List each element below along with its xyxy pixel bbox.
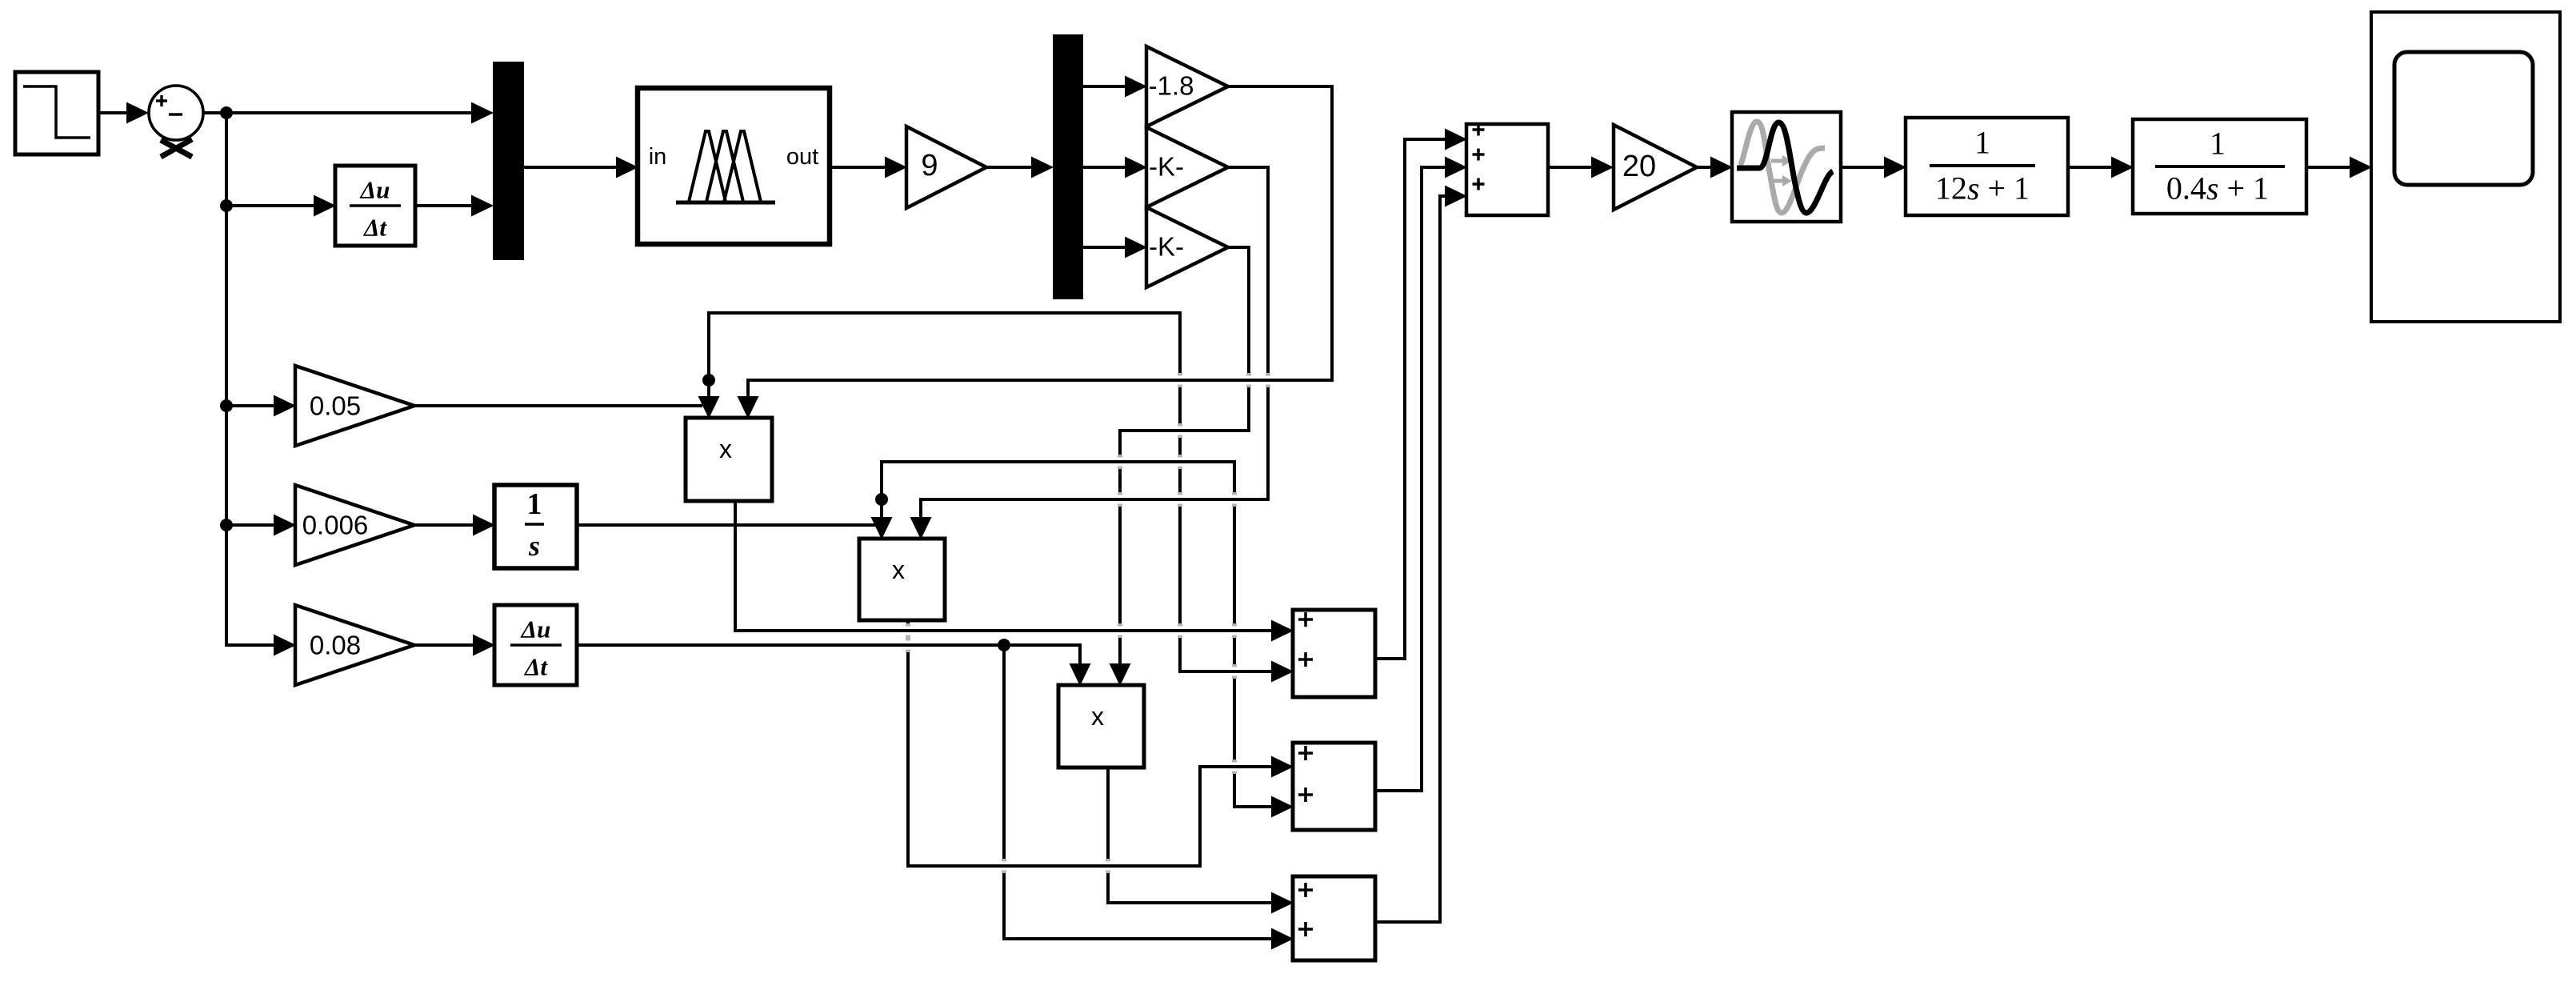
gain -K- upper triangle <box>1146 127 1228 207</box>
sum block 1 <box>1293 610 1375 697</box>
svg-text:0.006: 0.006 <box>302 511 369 540</box>
wire transfer fcn 1 to transfer fcn 2 <box>2068 157 2134 178</box>
node junction integral above product 2 <box>875 493 888 506</box>
svg-text:Δu: Δu <box>359 176 390 204</box>
wire demux out 1 to gain -1.8 <box>1083 76 1147 98</box>
sum junction circle <box>149 86 203 157</box>
wire du/dt 1 to mux <box>415 195 494 217</box>
mux bar <box>493 62 524 260</box>
wire branch to du/dt 1 <box>226 195 336 217</box>
wire integrator output <box>577 523 877 527</box>
transfer fcn 1 block 1/(12s+1) <box>1906 118 2068 215</box>
svg-text:in: in <box>649 144 667 170</box>
wire du/dt branch to sum 3 lower input <box>1004 645 1294 950</box>
gain 9 triangle <box>906 126 986 208</box>
node junction du/dt 2 output <box>998 639 1010 651</box>
wire du/dt 2 output to product 3 <box>577 645 1091 686</box>
svg-text:Δt: Δt <box>523 653 548 681</box>
wire 0.08 to du/dt 2 <box>414 635 495 656</box>
svg-text:Δu: Δu <box>520 615 551 643</box>
wire sum junction output to mux <box>203 102 494 124</box>
wire 0.05e into product 1 <box>698 379 720 419</box>
svg-text:x: x <box>719 435 732 463</box>
wire product 3 output to sum 3 upper input <box>1108 768 1294 914</box>
wire product 2 output to sum 2 upper input <box>908 620 1294 866</box>
svg-text:-K-: -K- <box>1149 152 1184 182</box>
node junction after sum <box>220 106 233 119</box>
wire mux to fuzzy controller <box>524 157 638 178</box>
product block 3 <box>1058 685 1144 768</box>
sum block 2 <box>1293 743 1375 830</box>
svg-text:9: 9 <box>921 149 938 182</box>
wire 0.05 output <box>414 404 702 407</box>
derivative block du/dt 1 <box>335 166 415 246</box>
svg-text:1: 1 <box>1974 125 1990 161</box>
wire crossing gaps <box>900 373 1276 873</box>
wire gain -K- upper feedback to product 2 <box>910 167 1269 539</box>
svg-text:x: x <box>892 555 905 584</box>
wire product 1 output to sum 1 upper input <box>735 501 1294 642</box>
sum block 3 <box>1293 876 1375 960</box>
svg-text:out: out <box>786 144 818 170</box>
wire branch to 0.05 gain <box>226 395 296 417</box>
wire saturation to transfer fcn 1 <box>1841 157 1906 178</box>
node junction du/dt branch <box>220 199 233 212</box>
transfer fcn 2 block 1/(0.4s+1) <box>2133 119 2306 214</box>
wire trunk to 0.08 gain <box>225 635 296 656</box>
step source block <box>15 72 98 154</box>
wire integral into product 2 <box>871 498 893 539</box>
svg-text:-K-: -K- <box>1149 232 1184 262</box>
wire demux out 3 to gain -K- lower <box>1083 237 1147 259</box>
wire gain 20 to saturation <box>1697 157 1733 178</box>
wire transfer fcn 2 to scope <box>2306 157 2372 178</box>
gain 0.08 triangle <box>295 605 414 685</box>
svg-text:0.08: 0.08 <box>310 631 361 660</box>
wire branch to 0.006 gain <box>226 515 296 536</box>
node junction 0.006 branch <box>220 519 233 531</box>
svg-text:1: 1 <box>527 487 542 521</box>
wire fuzzy controller to gain 9 <box>830 157 907 178</box>
derivative block du/dt 2 <box>494 605 577 685</box>
node e branch trunk <box>225 111 228 645</box>
wire 0.006 to integrator <box>414 515 495 536</box>
demux bar <box>1053 34 1083 299</box>
gain 20 triangle <box>1614 125 1697 210</box>
integrator block 1/s <box>494 485 577 568</box>
gain -K- lower triangle <box>1146 207 1228 287</box>
gain 0.05 triangle <box>295 366 414 446</box>
wire sum 2 output to main sum input 2 <box>1375 157 1467 792</box>
fuzzy logic controller block <box>638 88 830 244</box>
wire gain -1.8 feedback to product 1 <box>738 86 1333 419</box>
svg-text:0.05: 0.05 <box>310 391 361 421</box>
svg-text:12s + 1: 12s + 1 <box>1935 170 2030 206</box>
scope block <box>2371 12 2560 322</box>
node junction 0.05 branch <box>220 399 233 412</box>
wire sum 1 output to main sum input 1 <box>1375 129 1467 659</box>
wire demux out 2 to gain -K- upper <box>1083 157 1147 178</box>
svg-text:0.4s + 1: 0.4s + 1 <box>2166 170 2269 206</box>
wire step to sum junction <box>98 102 149 124</box>
svg-text:20: 20 <box>1622 150 1656 183</box>
node junction 0.05e above product 1 <box>702 374 715 387</box>
wire 0.05e branch to sum 1 lower input <box>709 313 1294 683</box>
product block 1 <box>686 418 772 501</box>
product block 2 <box>859 539 945 620</box>
wire integral branch to sum 2 lower input <box>882 462 1294 818</box>
svg-text:s: s <box>528 530 540 562</box>
wire gain -K- lower feedback to product 3 <box>1110 247 1250 686</box>
gain -1.8 triangle <box>1146 46 1228 126</box>
wire sum 3 output to main sum input 3 <box>1375 186 1467 923</box>
main sum block <box>1466 124 1548 216</box>
gain 0.006 triangle <box>295 485 414 565</box>
svg-text:x: x <box>1091 702 1104 731</box>
svg-text:-1.8: -1.8 <box>1149 71 1194 101</box>
wire gain 9 to demux <box>986 157 1054 178</box>
svg-text:1: 1 <box>2210 126 2226 162</box>
saturation block <box>1732 112 1841 222</box>
wire main sum to gain 20 <box>1548 157 1614 178</box>
svg-text:Δt: Δt <box>362 214 387 242</box>
